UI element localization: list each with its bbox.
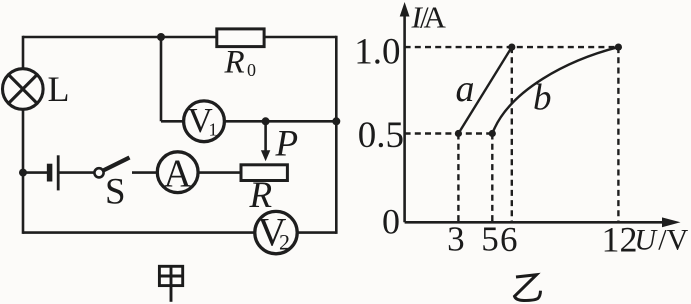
switch S: [94, 158, 129, 178]
dashed guide x=5: [491, 134, 493, 224]
svg-text:S: S: [105, 172, 126, 213]
x-axis U/V: [405, 217, 681, 227]
svg-text:5: 5: [481, 220, 499, 259]
svg-text:0: 0: [247, 60, 256, 80]
svg-text:a: a: [456, 68, 475, 110]
dashed guide 1.0: [405, 46, 619, 48]
point a start: [455, 130, 462, 137]
svg-text:3: 3: [447, 220, 465, 259]
wire: [161, 120, 336, 123]
caption yi: [515, 275, 541, 301]
svg-text:R: R: [224, 45, 245, 81]
dashed guide 0.5: [405, 132, 493, 134]
label R0: [224, 45, 257, 81]
node top junction: [157, 33, 165, 41]
svg-text:A: A: [424, 0, 447, 35]
point a end: [508, 44, 515, 51]
svg-text:1: 1: [209, 120, 218, 140]
slider arrow P: [261, 150, 270, 161]
svg-text:/V: /V: [658, 224, 688, 257]
point b end: [615, 44, 622, 51]
svg-text:0: 0: [382, 202, 400, 242]
svg-text:b: b: [533, 78, 552, 119]
resistor R0: [217, 29, 264, 47]
caption jia: [159, 266, 182, 302]
ammeter A: [157, 152, 198, 195]
svg-text:L: L: [48, 69, 70, 109]
rheostat R: [241, 165, 287, 181]
wire: [59, 171, 94, 174]
node right junction: [332, 117, 340, 125]
svg-text:U: U: [634, 224, 658, 257]
curve b: [492, 47, 618, 133]
wire: [23, 171, 47, 174]
lamp L: [3, 69, 44, 110]
node slider junction: [262, 117, 270, 125]
wire: [335, 36, 338, 234]
wire: [160, 37, 163, 121]
axis label I/A: [411, 0, 447, 35]
wire: [132, 171, 241, 174]
node battery junction: [19, 169, 27, 177]
wire: [22, 36, 25, 234]
axis label U/V: [634, 224, 688, 257]
svg-text:6: 6: [500, 220, 518, 259]
wire: [264, 121, 267, 153]
dashed guide x=3: [457, 134, 459, 224]
dashed guide x=12: [617, 47, 619, 223]
svg-text:12: 12: [602, 220, 638, 260]
svg-text:A: A: [164, 152, 192, 195]
voltmeter V1: [184, 101, 225, 142]
wire: [23, 231, 336, 234]
voltmeter V2: [255, 210, 297, 255]
point b start: [489, 130, 496, 137]
y-axis I/A: [400, 2, 410, 222]
wire: [23, 36, 336, 39]
dashed guide x=6: [511, 47, 513, 223]
svg-text:2: 2: [279, 230, 290, 255]
curve a: [458, 47, 511, 133]
svg-text:0.5: 0.5: [358, 115, 404, 156]
battery: [50, 155, 59, 190]
svg-text:1.0: 1.0: [354, 32, 400, 73]
svg-text:P: P: [275, 124, 299, 165]
